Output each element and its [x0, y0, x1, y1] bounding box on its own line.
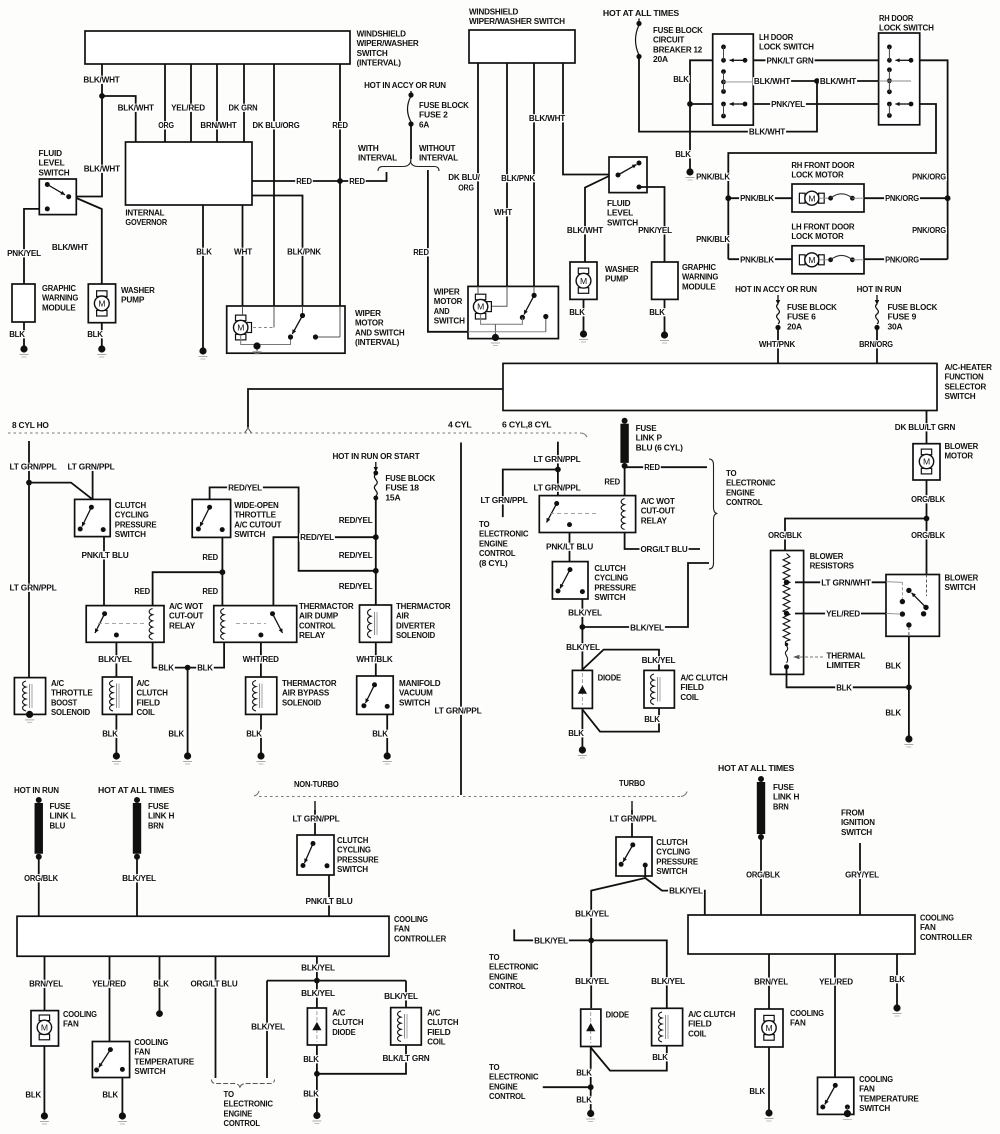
wire WHT/RED to bypass solenoid — [260, 642, 262, 677]
fuse block circuit breaker 12 — [638, 19, 640, 23]
temp switch 1 contacts — [108, 1047, 113, 1052]
A/C WOT cut-out relay 2 box — [539, 496, 635, 533]
svg-text:SWITCH: SWITCH — [357, 48, 388, 58]
ground module 1 — [20, 345, 27, 352]
wire PNK/YEL to graphic warning module 2 — [639, 187, 665, 262]
svg-text:BLK/YEL: BLK/YEL — [384, 991, 418, 1001]
wire BLK controller 1 stub — [159, 956, 161, 1011]
svg-text:AND SWITCH: AND SWITCH — [355, 327, 405, 337]
wire BLK/WHT LH to RH — [753, 80, 878, 82]
svg-text:CONTROL: CONTROL — [489, 981, 525, 991]
svg-text:BLK/YEL: BLK/YEL — [301, 963, 335, 973]
ground pump 1 — [98, 345, 105, 352]
wire RED to wiper motor — [339, 64, 341, 306]
svg-text:RED: RED — [413, 247, 429, 257]
svg-text:MOTOR: MOTOR — [355, 318, 384, 328]
svg-text:SWITCH: SWITCH — [945, 582, 976, 592]
svg-text:YEL/RED: YEL/RED — [826, 609, 860, 619]
wire WHT/BLK to vacuum switch — [375, 642, 377, 676]
svg-text:A/C: A/C — [51, 678, 64, 688]
ground BLK bus — [184, 752, 191, 759]
wire LT GRN/PPL non-turbo — [314, 801, 316, 810]
wire ORG/BLK fuse link L to controller — [38, 857, 40, 917]
svg-text:BLK: BLK — [673, 74, 690, 84]
svg-text:MOTOR: MOTOR — [945, 451, 974, 461]
svg-text:BLK/YEL: BLK/YEL — [566, 642, 600, 652]
svg-text:SWITCH: SWITCH — [594, 592, 625, 602]
svg-text:YEL/RED: YEL/RED — [92, 979, 126, 989]
svg-text:CONTROL: CONTROL — [479, 548, 515, 558]
svg-text:BRN: BRN — [148, 820, 164, 830]
svg-text:M: M — [808, 193, 815, 203]
svg-text:BLK: BLK — [102, 1090, 119, 1100]
svg-text:BLK: BLK — [303, 1089, 320, 1099]
A/C clutch field coil 2 box — [644, 670, 674, 708]
washer pump 2 box — [570, 262, 597, 299]
wire RED/YEL from wot switch top — [210, 487, 376, 570]
svg-text:PRESSURE: PRESSURE — [337, 854, 379, 864]
wide-open throttle A/C cutout switch box — [192, 499, 230, 537]
svg-text:ENGINE: ENGINE — [726, 487, 755, 497]
ground diode 1 — [579, 746, 586, 753]
LH door lock switch contacts — [721, 45, 726, 50]
svg-text:SWITCH: SWITCH — [115, 529, 146, 539]
svg-text:BLK: BLK — [885, 708, 902, 718]
svg-text:THERMACTOR: THERMACTOR — [282, 678, 337, 688]
A/C WOT cut-out relay 1 box — [86, 606, 164, 643]
svg-text:M: M — [808, 255, 815, 265]
RH door lock switch box — [879, 33, 920, 125]
label LT GRN/PPL 2 — [66, 463, 115, 471]
svg-text:THERMACTOR: THERMACTOR — [299, 601, 354, 611]
svg-text:PNK/ORG: PNK/ORG — [885, 254, 919, 264]
label RED on governor wire — [295, 177, 313, 185]
svg-text:CLUTCH: CLUTCH — [137, 688, 168, 698]
junction BLK turbo — [588, 1084, 594, 1090]
ground dot temp switch 2 — [844, 1110, 851, 1117]
svg-text:BLOWER: BLOWER — [945, 441, 979, 451]
svg-text:HOT IN RUN OR START: HOT IN RUN OR START — [333, 451, 421, 461]
svg-text:LT GRN/PPL: LT GRN/PPL — [533, 482, 580, 492]
svg-text:M: M — [580, 276, 587, 286]
svg-text:BLK: BLK — [836, 682, 853, 692]
svg-text:RED/YEL: RED/YEL — [339, 550, 373, 560]
svg-text:WINDSHIELD: WINDSHIELD — [469, 7, 518, 17]
ground cooling fan 2 — [765, 1109, 772, 1116]
svg-text:COIL: COIL — [137, 707, 155, 717]
svg-text:FUSE 9: FUSE 9 — [888, 312, 917, 322]
svg-text:COIL: COIL — [680, 692, 698, 702]
junction RED — [220, 569, 226, 575]
wire BLK under diode — [302, 1055, 320, 1063]
svg-text:WIPER/WASHER SWITCH: WIPER/WASHER SWITCH — [469, 16, 565, 26]
svg-text:WASHER: WASHER — [605, 264, 640, 274]
svg-text:INTERNAL: INTERNAL — [125, 208, 164, 218]
wire from selector switch to 4-cyl divider — [248, 389, 503, 428]
wire BLK under vacuum switch — [386, 714, 388, 753]
svg-text:RED: RED — [332, 120, 348, 130]
svg-text:BLK/YEL: BLK/YEL — [98, 654, 132, 664]
wire PNK/LT BLU ccp3 to controller — [328, 875, 330, 916]
bypass solenoid coil — [253, 681, 256, 711]
wot relay 2 internals — [554, 501, 559, 506]
svg-text:RED: RED — [349, 176, 365, 186]
svg-text:LT GRN/PPL: LT GRN/PPL — [609, 814, 656, 824]
svg-text:BLOWER: BLOWER — [945, 573, 979, 583]
svg-text:GRY/YEL: GRY/YEL — [845, 870, 879, 880]
svg-text:LT GRN/PPL: LT GRN/PPL — [67, 462, 114, 472]
svg-text:FAN: FAN — [920, 922, 936, 932]
svg-text:RED/YEL: RED/YEL — [300, 532, 334, 542]
washer pump 2 motor — [578, 268, 588, 274]
svg-text:LH DOOR: LH DOOR — [759, 32, 794, 42]
junction BLK/YEL turbo — [588, 938, 594, 944]
svg-text:WHT/PNK: WHT/PNK — [759, 339, 796, 349]
A/C clutch diode symbol — [312, 1022, 321, 1030]
svg-text:RED/YEL: RED/YEL — [339, 515, 373, 525]
svg-text:RED: RED — [134, 586, 150, 596]
svg-text:SOLENOID: SOLENOID — [282, 697, 321, 707]
svg-text:GRAPHIC: GRAPHIC — [42, 283, 76, 293]
wire LT GRN/PPL main 8cyl — [28, 441, 30, 678]
svg-text:SWITCH: SWITCH — [841, 827, 872, 837]
svg-text:BLK/PNK: BLK/PNK — [501, 173, 536, 183]
wire PNK/YEL to left bus — [728, 104, 936, 259]
label BLK/WHT at washer pump — [51, 243, 89, 251]
svg-text:FAN: FAN — [790, 1018, 806, 1028]
svg-text:BLK/WHT: BLK/WHT — [84, 164, 121, 174]
label BLK/PNK — [286, 248, 322, 256]
wire WHT governor to wiper motor — [242, 205, 244, 306]
label WHT — [493, 208, 513, 216]
svg-text:WHT: WHT — [234, 247, 253, 257]
ccp switch 4 contacts — [630, 842, 635, 847]
svg-text:AIR: AIR — [396, 611, 410, 621]
svg-text:SOLENOID: SOLENOID — [51, 707, 90, 717]
svg-text:BLK/YEL: BLK/YEL — [534, 935, 568, 945]
wire BRN/YEL to cooling fan 1 — [44, 956, 46, 1010]
fuse link L — [36, 797, 42, 803]
wire YEL/RED — [164, 64, 166, 142]
svg-text:FUSE: FUSE — [148, 801, 169, 811]
svg-text:IGNITION: IGNITION — [841, 817, 875, 827]
svg-text:AIR DUMP: AIR DUMP — [299, 611, 339, 621]
svg-text:ORG/BLK: ORG/BLK — [911, 494, 946, 504]
svg-text:LT GRN/PPL: LT GRN/PPL — [480, 495, 527, 505]
svg-text:RED: RED — [604, 477, 620, 487]
svg-text:WITHOUT: WITHOUT — [419, 143, 456, 153]
svg-text:TO: TO — [489, 1062, 500, 1072]
wire PNK/LT BLU relay to ccp switch 2 — [569, 533, 571, 562]
wire BLK/WHT to washer pump 2 — [585, 176, 609, 262]
svg-text:BLK/YEL: BLK/YEL — [568, 608, 602, 618]
wire PNK/ORG from LH motor — [864, 258, 948, 260]
svg-text:FROM: FROM — [841, 808, 864, 818]
wiper motor 1 switch contacts — [300, 313, 305, 318]
wire ORG/BLK branch to blower resistors — [785, 519, 927, 551]
wire RED without-interval to wiper motor 2 — [428, 170, 468, 332]
svg-text:M: M — [98, 299, 105, 309]
svg-text:BLK: BLK — [246, 729, 263, 739]
svg-text:DK BLU/: DK BLU/ — [448, 172, 480, 182]
wire from fluid level switch to washer pump — [76, 198, 102, 284]
svg-text:M: M — [477, 302, 484, 312]
wire WHT 2 — [506, 63, 508, 286]
svg-text:WASHER: WASHER — [121, 285, 156, 295]
svg-text:BLK: BLK — [372, 729, 389, 739]
ground pump 2 — [580, 330, 587, 337]
svg-text:ORG: ORG — [158, 120, 174, 130]
svg-text:PNK/BLK: PNK/BLK — [696, 172, 731, 182]
junction LT GRN/PPL — [26, 480, 32, 486]
svg-text:ELECTRONIC: ELECTRONIC — [726, 478, 775, 488]
label PNK/YEL — [6, 249, 42, 257]
svg-text:BLK/YEL: BLK/YEL — [642, 655, 676, 665]
svg-text:AIR BYPASS: AIR BYPASS — [282, 688, 330, 698]
svg-text:DIVERTER: DIVERTER — [396, 620, 436, 630]
svg-text:BRN/YEL: BRN/YEL — [29, 979, 63, 989]
label BLK/WHT — [82, 76, 120, 84]
svg-text:TEMPERATURE: TEMPERATURE — [859, 1093, 919, 1103]
wire BLK/YEL ccp4 left branch — [591, 865, 645, 1008]
wire BLK/YEL relay to clutch coil — [115, 642, 117, 677]
blower motor symbol — [921, 449, 931, 455]
svg-text:RED/YEL: RED/YEL — [228, 482, 262, 492]
svg-text:CONTROLLER: CONTROLLER — [394, 933, 447, 943]
wire RED from fuse link P down — [624, 467, 626, 495]
svg-text:PNK/BLK: PNK/BLK — [696, 234, 731, 244]
svg-text:FUSE 2: FUSE 2 — [419, 110, 448, 120]
wire DK BLU/ORG into motor brush — [477, 286, 479, 294]
wire RED/YEL branch to dump relay — [273, 537, 375, 605]
svg-text:A/C: A/C — [332, 1008, 345, 1018]
svg-text:SWITCH: SWITCH — [656, 866, 687, 876]
label BLK/PNK — [500, 174, 536, 182]
wire BLK diode 2 to ground — [590, 1047, 592, 1111]
svg-text:WHT/RED: WHT/RED — [243, 654, 279, 664]
svg-text:SWITCH: SWITCH — [234, 529, 265, 539]
svg-text:COOLING: COOLING — [790, 1008, 824, 1018]
svg-text:ORG/BLK: ORG/BLK — [24, 873, 59, 883]
junction BLK/YEL bus — [314, 978, 320, 984]
svg-text:COOLING: COOLING — [859, 1074, 893, 1084]
svg-text:30A: 30A — [888, 321, 903, 331]
svg-text:LT GRN/PPL: LT GRN/PPL — [533, 454, 580, 464]
svg-text:PRESSURE: PRESSURE — [594, 582, 636, 592]
svg-text:6A: 6A — [419, 119, 429, 129]
ground coil 1 — [113, 752, 120, 759]
svg-text:WIPER/WASHER: WIPER/WASHER — [357, 38, 420, 48]
svg-text:FAN: FAN — [134, 1047, 150, 1057]
svg-text:BLK/LT GRN: BLK/LT GRN — [382, 1053, 429, 1063]
svg-text:FAN: FAN — [394, 924, 410, 934]
svg-text:BLU (6 CYL): BLU (6 CYL) — [636, 442, 683, 452]
ccp switch 1 contacts — [89, 505, 94, 510]
wire from breaker to BLK/WHT bus — [639, 57, 817, 132]
svg-text:SWITCH: SWITCH — [39, 167, 70, 177]
svg-text:SWITCH: SWITCH — [337, 864, 368, 874]
svg-text:HOT IN ACCY OR RUN: HOT IN ACCY OR RUN — [735, 284, 817, 294]
svg-text:A/C: A/C — [427, 1008, 440, 1018]
svg-text:PNK/LT BLU: PNK/LT BLU — [305, 896, 352, 906]
cooling fan 1 box — [31, 1011, 59, 1046]
svg-text:LH FRONT DOOR: LH FRONT DOOR — [791, 222, 855, 232]
diode 2 symbol — [586, 1023, 595, 1031]
svg-text:MOTOR: MOTOR — [434, 296, 463, 306]
wire BLK to EEC left — [543, 1086, 591, 1088]
svg-text:LOCK MOTOR: LOCK MOTOR — [791, 231, 844, 241]
svg-text:BLK: BLK — [885, 660, 902, 670]
wire BLK from governor to ground — [202, 205, 204, 348]
svg-text:SOLENOID: SOLENOID — [396, 630, 435, 640]
wiper motor 2 symbol — [475, 294, 485, 300]
svg-text:CONTROL: CONTROL — [489, 1091, 525, 1101]
svg-text:HOT IN RUN: HOT IN RUN — [857, 284, 902, 294]
wire BLK under coil 1 — [115, 714, 117, 753]
ground temp switch 1 — [119, 1112, 126, 1119]
wire BLK coil2 to diode bottom — [582, 708, 659, 732]
label PNK/BLK lower — [695, 235, 731, 243]
svg-text:ORG/BLK: ORG/BLK — [746, 870, 781, 880]
svg-text:THROTTLE: THROTTLE — [234, 510, 276, 520]
clutch cycling pressure switch 1 box — [75, 499, 111, 536]
RH front door lock motor box — [792, 184, 864, 212]
TURBO dashed divider — [463, 796, 681, 798]
svg-text:CYCLING: CYCLING — [594, 573, 628, 583]
svg-text:ENGINE: ENGINE — [224, 1108, 253, 1118]
wire ORG — [190, 64, 192, 142]
svg-text:ORG/BLK: ORG/BLK — [911, 530, 946, 540]
washer pump 1 motor — [97, 291, 107, 297]
svg-text:BLK: BLK — [652, 1052, 669, 1062]
svg-text:RELAY: RELAY — [299, 630, 325, 640]
svg-text:A/C-HEATER: A/C-HEATER — [945, 362, 993, 372]
label BLK/YEL above diode 2 — [574, 977, 610, 985]
svg-text:BRN: BRN — [773, 801, 789, 811]
svg-text:FIELD: FIELD — [680, 682, 703, 692]
svg-text:BLK: BLK — [576, 1095, 593, 1105]
wire BLK coil 4 to diode bottom — [591, 1046, 667, 1071]
svg-text:ENGINE: ENGINE — [479, 538, 508, 548]
wire BRN/WHT — [216, 64, 218, 142]
svg-text:BREAKER 12: BREAKER 12 — [653, 44, 702, 54]
temp switch 2 contacts — [833, 1083, 838, 1088]
svg-text:WIPER: WIPER — [355, 308, 382, 318]
svg-text:PUMP: PUMP — [121, 295, 145, 305]
wire LT GRN/PPL branch to EEC — [503, 470, 558, 518]
NON-TURBO dashed divider — [254, 791, 259, 796]
svg-text:TO: TO — [224, 1089, 235, 1099]
svg-text:VACUUM: VACUUM — [399, 688, 433, 698]
wire BLK/WHT branch to internal governor — [102, 96, 136, 142]
A/C clutch field coil 1 box — [102, 677, 132, 714]
svg-text:PNK/ORG: PNK/ORG — [885, 193, 919, 203]
wire BLK under pump 2 — [583, 299, 585, 331]
junction LT GRN/PPL 6cyl — [555, 467, 561, 473]
svg-text:ORG/LT BLU: ORG/LT BLU — [640, 544, 687, 554]
label RED — [412, 248, 430, 256]
svg-text:FLUID: FLUID — [607, 198, 630, 208]
vacuum switch contacts — [372, 682, 377, 687]
svg-text:BRN/ORG: BRN/ORG — [859, 339, 893, 349]
svg-text:A/C CUTOUT: A/C CUTOUT — [234, 519, 282, 529]
wire 4 CYL LT GRN/PPL vertical — [460, 443, 462, 796]
svg-text:BLK: BLK — [87, 329, 104, 339]
svg-text:HOT AT ALL TIMES: HOT AT ALL TIMES — [98, 785, 175, 795]
wire BRN/YEL to cooling fan 2 — [768, 954, 770, 1009]
svg-text:TO: TO — [489, 952, 500, 962]
svg-text:COIL: COIL — [688, 1028, 706, 1038]
svg-text:BLK: BLK — [25, 1090, 42, 1100]
terminal dot BLK — [156, 1010, 163, 1017]
svg-text:FUSE 18: FUSE 18 — [385, 483, 419, 493]
RH door lock switch contacts — [887, 45, 892, 50]
svg-text:CIRCUIT: CIRCUIT — [653, 35, 685, 45]
label WHT — [233, 248, 253, 256]
svg-text:BLK: BLK — [153, 979, 170, 989]
ground inside wiper motor 2 — [492, 334, 499, 341]
svg-text:RH FRONT DOOR: RH FRONT DOOR — [791, 160, 855, 170]
svg-text:PNK/ORG: PNK/ORG — [912, 172, 946, 182]
svg-text:PNK/BLK: PNK/BLK — [740, 254, 775, 264]
junction RED/YEL lower — [373, 568, 379, 574]
svg-text:LIMITER: LIMITER — [826, 660, 861, 670]
svg-text:TO: TO — [726, 468, 737, 478]
wire BLK ground LH switch — [690, 60, 713, 169]
thermal limiter label and arrow — [797, 656, 823, 658]
cooling fan 2 box — [755, 1009, 783, 1047]
svg-text:HOT AT ALL TIMES: HOT AT ALL TIMES — [718, 763, 795, 773]
wire BLK under pump 1 — [101, 323, 103, 346]
svg-text:4 CYL: 4 CYL — [448, 420, 471, 430]
svg-text:CLUTCH: CLUTCH — [656, 837, 687, 847]
ground under governor BLK — [199, 347, 206, 354]
svg-text:BLK/YEL: BLK/YEL — [122, 873, 156, 883]
svg-text:A/C: A/C — [137, 678, 150, 688]
wire RED interior to switch contact — [468, 331, 546, 333]
svg-text:FLUID: FLUID — [39, 148, 62, 158]
svg-text:BLK: BLK — [675, 149, 692, 159]
label BLK — [195, 248, 213, 256]
svg-text:BLK/YEL: BLK/YEL — [669, 886, 703, 896]
svg-text:M: M — [237, 323, 244, 333]
ground inside wiper motor 1 — [253, 342, 260, 349]
junction BLK bus — [185, 665, 191, 671]
ccp switch 3 contacts — [311, 841, 316, 846]
svg-text:CLUTCH: CLUTCH — [337, 835, 368, 845]
svg-text:BLK: BLK — [196, 247, 213, 257]
blower resistors element — [783, 554, 790, 642]
wire ORG/BLK blower motor down — [926, 480, 928, 575]
svg-text:FUSE BLOCK: FUSE BLOCK — [787, 302, 838, 312]
svg-text:PNK/YEL: PNK/YEL — [7, 248, 41, 258]
label BLK/WHT — [528, 114, 566, 122]
svg-text:HOT IN ACCY OR RUN: HOT IN ACCY OR RUN — [364, 80, 446, 90]
svg-text:BLK: BLK — [168, 729, 185, 739]
svg-text:A/C CLUTCH: A/C CLUTCH — [688, 1009, 735, 1019]
svg-text:ELECTRONIC: ELECTRONIC — [489, 962, 538, 972]
fluid level switch 2 box — [609, 157, 647, 193]
svg-text:BLOWER: BLOWER — [810, 551, 844, 561]
diode 1 symbol — [578, 685, 587, 693]
svg-text:ELECTRONIC: ELECTRONIC — [224, 1099, 273, 1109]
svg-text:PRESSURE: PRESSURE — [115, 519, 157, 529]
svg-text:BLK: BLK — [576, 1068, 593, 1078]
svg-text:(8 CYL): (8 CYL) — [479, 558, 508, 568]
junction BLK/YEL — [580, 624, 586, 630]
diode 1 box — [572, 670, 592, 708]
ground clutch diode — [313, 1112, 320, 1119]
